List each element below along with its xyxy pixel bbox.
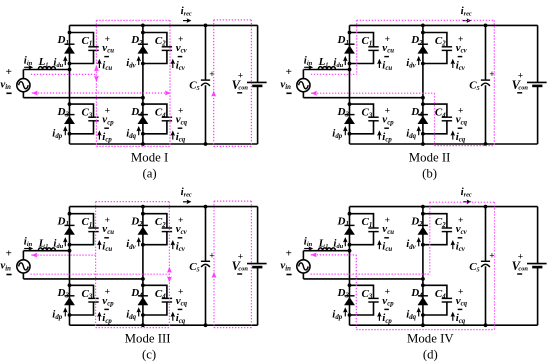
- svg-text:(d): (d): [423, 348, 438, 362]
- svg-text:(a): (a): [142, 166, 156, 180]
- svg-text:Mode IV: Mode IV: [407, 332, 454, 346]
- svg-text:(c): (c): [142, 348, 156, 362]
- svg-text:(b): (b): [422, 166, 437, 180]
- svg-text:Mode I: Mode I: [131, 151, 168, 165]
- svg-text:Mode II: Mode II: [409, 151, 451, 165]
- svg-text:Mode III: Mode III: [125, 332, 171, 346]
